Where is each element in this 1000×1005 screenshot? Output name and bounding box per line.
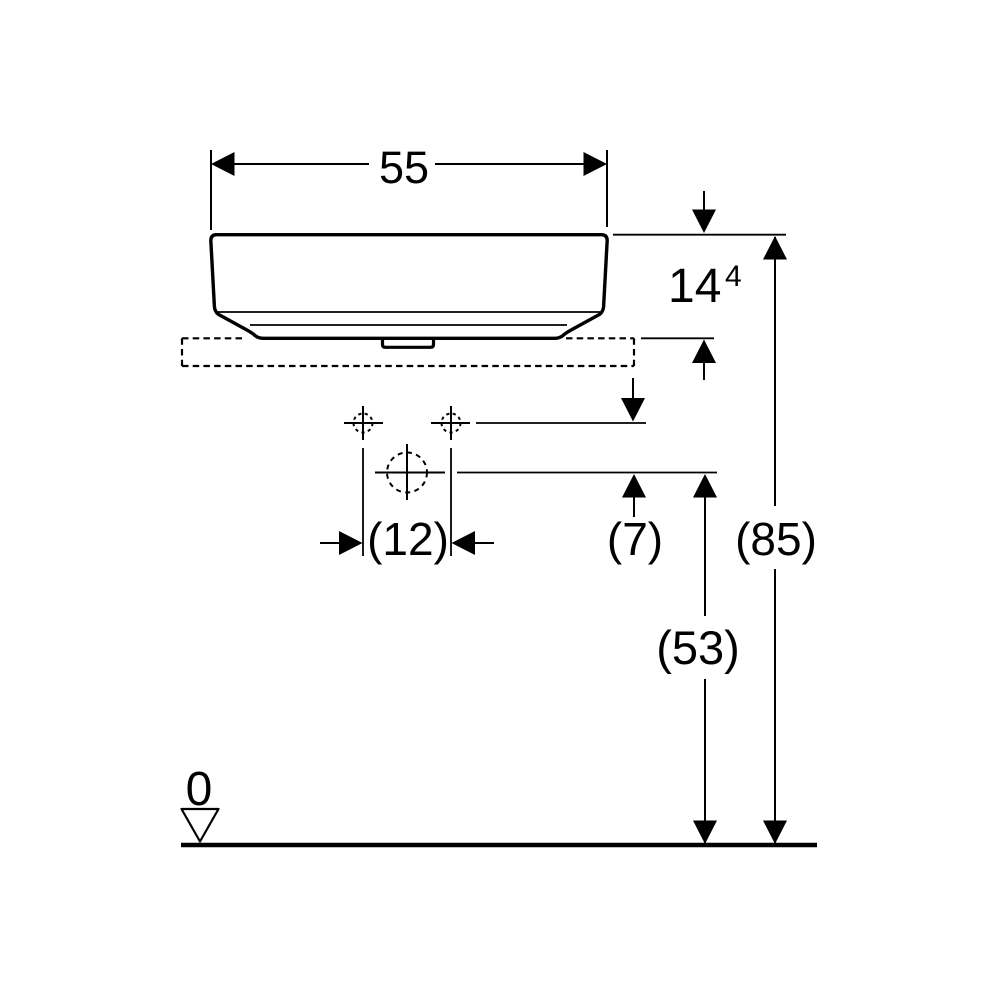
svg-text:(7): (7) <box>607 513 663 565</box>
fixing hole left cross vertical <box>362 406 364 440</box>
datum triangle symbol <box>182 809 219 842</box>
svg-text:(53): (53) <box>656 621 740 674</box>
dimension 14-4 bottom reference line <box>641 337 714 339</box>
svg-text:(85): (85) <box>735 513 817 565</box>
dimension 53 upper arrowhead <box>693 474 717 498</box>
basin rim line lower <box>250 324 567 326</box>
dimension 7 lower arrowhead <box>622 474 646 498</box>
dimension 85 top arrowhead <box>763 236 787 260</box>
svg-text:55: 55 <box>379 142 429 193</box>
dimension 55 line right segment <box>435 163 605 165</box>
fixing hole right dashed circle <box>442 414 461 433</box>
dimension 7 upper arrow tail <box>632 378 634 400</box>
dimension 12 right arrow tail <box>474 542 494 544</box>
dimension 7 upper arrowhead <box>621 398 645 422</box>
dimension 55 line left segment <box>213 163 369 165</box>
svg-text:14: 14 <box>668 260 721 313</box>
countertop dashed top right segment <box>566 337 634 339</box>
basin drain tab <box>383 339 434 347</box>
dimension 14-4 lower arrow tail <box>703 362 705 380</box>
countertop dashed right edge <box>633 338 635 366</box>
countertop dashed left edge <box>181 338 183 366</box>
tap hole dashed circle <box>387 453 427 493</box>
dimension 12 extension line right <box>450 448 452 556</box>
fixing hole axis line <box>476 422 646 424</box>
dimension 55 arrowhead left <box>211 152 235 176</box>
fixing hole right cross vertical <box>450 406 452 440</box>
dimension 85 bottom arrowhead <box>763 821 787 845</box>
dimension 12 left arrow tail <box>320 542 340 544</box>
dimension 53 upper tail <box>704 497 706 616</box>
dimension 14-4 upper arrowhead <box>692 210 716 234</box>
dimension 14-4 upper arrow tail <box>703 191 705 212</box>
fixing hole left dashed circle <box>354 414 373 433</box>
dimension 55 arrowhead right <box>584 152 608 176</box>
countertop dashed bottom edge <box>182 365 634 367</box>
dimension 7 lower arrow tail <box>633 497 635 517</box>
dimension 12 extension line left <box>362 448 364 556</box>
dimension 12 left arrowhead <box>339 531 363 555</box>
dimension 85 lower line <box>774 569 776 843</box>
svg-text:(12): (12) <box>367 513 449 565</box>
svg-text:4: 4 <box>725 260 742 293</box>
fixing hole right cross horizontal <box>431 422 470 424</box>
dimension 53 bottom arrowhead <box>693 821 717 845</box>
dimension 14-4 lower arrowhead <box>692 340 716 364</box>
floor line <box>181 843 817 848</box>
dimension 14-4 top reference line <box>613 234 786 236</box>
basin outline <box>211 235 607 339</box>
dimension 85 upper line <box>774 237 776 506</box>
fixing hole left cross horizontal <box>344 422 383 424</box>
dimension 12 right arrowhead <box>452 531 476 555</box>
tap hole cross vertical <box>406 444 408 500</box>
tap hole cross horizontal <box>375 472 445 474</box>
tap hole axis line <box>457 472 717 474</box>
dimension 55 extension line right <box>606 150 608 227</box>
basin rim line upper <box>216 311 600 313</box>
dimension 53 lower line <box>704 679 706 843</box>
dimension 55 extension line left <box>210 150 212 230</box>
countertop dashed top left segment <box>182 337 246 339</box>
